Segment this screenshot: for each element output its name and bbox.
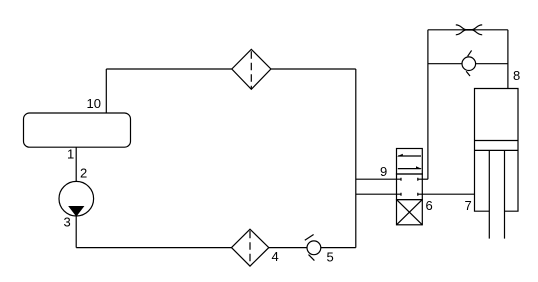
throttle valve 8 upper arc [456, 25, 482, 30]
svg-text:10: 10 [87, 96, 101, 111]
wire pump outlet [75, 216, 77, 248]
directional valve 6 body middle box 9 [397, 174, 423, 200]
throttle valve 8 lower arc [456, 30, 482, 35]
tank 10 [24, 113, 131, 147]
wire valve B port to cylinder [422, 193, 474, 195]
wire trunk to valve port T [356, 193, 397, 195]
valve top box arrow right [398, 168, 421, 170]
svg-text:3: 3 [64, 215, 71, 230]
pump flow triangle [69, 207, 83, 216]
valve port mark right lower [418, 193, 423, 196]
wire filter 4 to check valve 5 [269, 247, 307, 249]
wire top left horizontal [106, 68, 232, 70]
valve port mark left upper [397, 178, 402, 181]
svg-text:6: 6 [426, 198, 433, 213]
bypass check valve seat top [468, 50, 472, 56]
directional valve 6 body top box [397, 149, 423, 175]
wire trunk to valve port P [356, 178, 397, 180]
cylinder 7 barrel [475, 89, 519, 212]
svg-text:2: 2 [80, 166, 87, 181]
wire bottom left horizontal [76, 247, 231, 249]
wire flow control lower branch [428, 63, 462, 65]
pump 2 [59, 181, 94, 216]
svg-text:9: 9 [380, 164, 387, 179]
svg-text:4: 4 [272, 249, 279, 264]
filter 4 [232, 229, 269, 266]
valve port mark left lower [397, 193, 402, 196]
check valve 5 [307, 241, 321, 255]
bypass check valve [462, 57, 476, 71]
svg-text:8: 8 [513, 68, 520, 83]
wire valve A port stub [422, 178, 428, 180]
wire check valve 5 to trunk [321, 247, 356, 249]
valve top box arrow left [398, 155, 421, 157]
valve bottom box cross line 1 [397, 200, 423, 225]
svg-text:7: 7 [465, 198, 472, 213]
bypass check valve seat bottom [466, 71, 470, 76]
check valve 5 seat bottom [309, 255, 315, 261]
svg-text:5: 5 [327, 250, 334, 265]
wire top right horizontal [271, 68, 356, 70]
wire tank to pump [75, 147, 77, 181]
filter (top return filter) [232, 49, 271, 89]
svg-text:1: 1 [67, 147, 74, 162]
wire right drop to cylinder [507, 30, 509, 89]
check valve 5 seat top [305, 235, 314, 241]
wire riser to flow control [427, 30, 429, 179]
filter 4 dashed element [249, 231, 251, 265]
wire flow control top branch [428, 29, 508, 31]
wire check valve to right branch [476, 63, 508, 65]
cylinder piston [475, 141, 519, 151]
wire tank top riser [105, 69, 107, 113]
valve bottom box cross line 2 [397, 200, 423, 225]
directional valve 6 body bottom box [397, 200, 423, 225]
valve port mark right upper [418, 178, 423, 181]
cylinder rod left line [488, 150, 490, 238]
wire right vertical trunk [355, 69, 357, 248]
filter dashed element [250, 51, 252, 89]
cylinder rod right line [504, 150, 506, 238]
